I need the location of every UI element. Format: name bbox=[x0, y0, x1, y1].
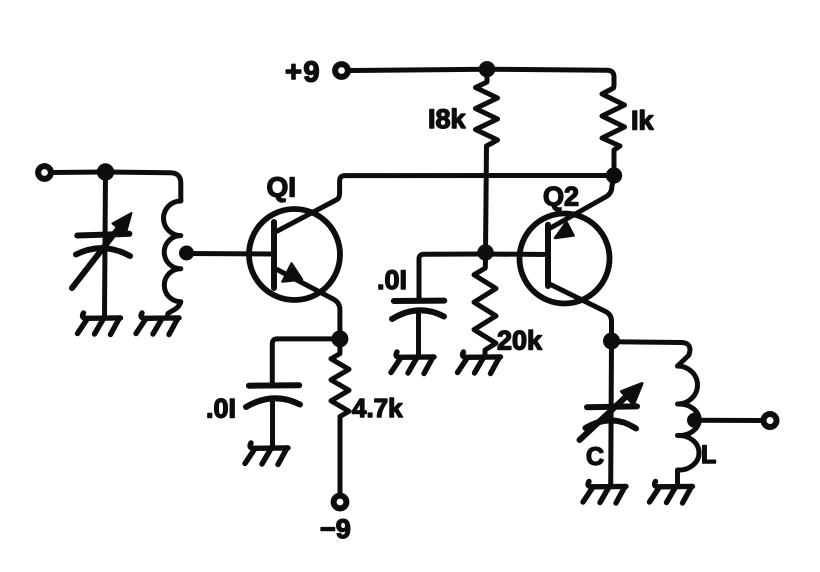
variable capacitor C: arrow shaft bbox=[580, 393, 631, 440]
wire Q2 base node to base bbox=[486, 252, 549, 258]
wire Q2 base node to coupling cap bbox=[419, 254, 486, 301]
terminal +9 bbox=[335, 64, 348, 77]
svg-text:+9: +9 bbox=[285, 57, 321, 89]
svg-text:Ik: Ik bbox=[631, 106, 655, 136]
variable capacitor C: body line bbox=[608, 341, 614, 485]
ground under left coil bbox=[136, 313, 179, 335]
variable capacitor left: body line bbox=[105, 172, 106, 316]
wire junction to left coil top bbox=[106, 172, 181, 201]
node top rail / 18k junction bbox=[479, 61, 495, 77]
wire input to junction bbox=[52, 170, 106, 176]
transistor Q1 circle bbox=[249, 209, 340, 300]
node input / tank bbox=[97, 163, 114, 180]
variable capacitor left: arrow shaft bbox=[72, 223, 123, 289]
capacitor .01 Q2: curved plate bbox=[392, 310, 444, 319]
transistor Q2 collector lead bbox=[550, 284, 612, 341]
svg-text:.0I: .0I bbox=[206, 394, 236, 424]
resistor R 1k bbox=[602, 85, 625, 176]
svg-text:L: L bbox=[701, 441, 716, 469]
capacitor .01 Q2: top plate bbox=[394, 298, 445, 304]
capacitor .01 Q1: curved plate bbox=[246, 398, 300, 407]
wire +9 rail bbox=[349, 69, 614, 85]
node L coil tap bbox=[687, 413, 702, 428]
transistor Q2 emitter arrow bbox=[555, 222, 574, 238]
resistor R 18k bbox=[476, 77, 498, 146]
variable capacitor left: arrow head bbox=[113, 213, 132, 235]
variable capacitor C: curved plate bbox=[586, 420, 637, 428]
node left coil tap bbox=[179, 246, 194, 261]
transistor Q1 emitter lead bbox=[277, 270, 340, 339]
svg-text:QI: QI bbox=[267, 172, 297, 203]
node Q2 base / 18k / 20k / cap bbox=[477, 244, 493, 260]
ground under C bbox=[583, 482, 626, 504]
variable capacitor left: curved plate bbox=[76, 248, 130, 256]
transistor Q2 emitter lead bbox=[550, 176, 615, 229]
node Q1 emitter / 4.7k / cap bbox=[331, 330, 348, 347]
node 1k / Q1 collector / Q2 emitter bbox=[606, 167, 622, 183]
capacitor .01 Q2: bottom lead bbox=[416, 312, 421, 356]
inductor L coil bbox=[678, 366, 700, 484]
wire coil tap to Q1 base bbox=[187, 251, 275, 257]
svg-text:Q2: Q2 bbox=[543, 182, 579, 212]
terminal input left bbox=[38, 166, 51, 179]
wire Q2 collector node to L coil bbox=[612, 342, 691, 366]
svg-text:20k: 20k bbox=[497, 326, 543, 356]
wire 18k bottom to Q2 base node bbox=[486, 146, 487, 253]
transistor Q1 collector lead bbox=[277, 176, 615, 232]
transistor Q2 base bar bbox=[545, 225, 551, 286]
variable capacitor left: straight plate bbox=[77, 234, 129, 236]
terminal output bbox=[764, 414, 777, 427]
svg-text:.0I: .0I bbox=[377, 265, 407, 295]
resistor R 4.7k bbox=[331, 347, 349, 495]
ground under left variable capacitor bbox=[78, 313, 121, 335]
transistor Q2 circle bbox=[520, 214, 610, 304]
capacitor .01 Q1: top plate bbox=[249, 382, 299, 388]
variable capacitor C: arrow head bbox=[622, 384, 643, 405]
svg-text:C: C bbox=[586, 443, 604, 471]
svg-text:4.7k: 4.7k bbox=[352, 393, 403, 423]
transistor Q1 emitter arrow bbox=[283, 264, 303, 282]
transistor Q1 base bar bbox=[271, 222, 277, 288]
variable capacitor C: straight plate bbox=[587, 403, 637, 410]
node Q2 collector / tank bbox=[603, 333, 620, 350]
ground under .01 Q2 bbox=[391, 352, 434, 374]
ground under .01 Q1 bbox=[245, 443, 288, 465]
terminal -9 bbox=[334, 496, 347, 509]
ground under L coil bbox=[650, 482, 693, 504]
svg-text:−9: −9 bbox=[320, 514, 351, 544]
resistor R 20k bbox=[474, 260, 496, 355]
inductor left coil bbox=[164, 201, 181, 316]
ground under 20k bbox=[458, 352, 501, 374]
wire Q1 emitter node to bypass cap bbox=[272, 339, 340, 386]
svg-text:I8k: I8k bbox=[428, 104, 467, 134]
wire L tap to output bbox=[695, 418, 763, 423]
capacitor .01 Q1: bottom lead bbox=[270, 399, 275, 446]
